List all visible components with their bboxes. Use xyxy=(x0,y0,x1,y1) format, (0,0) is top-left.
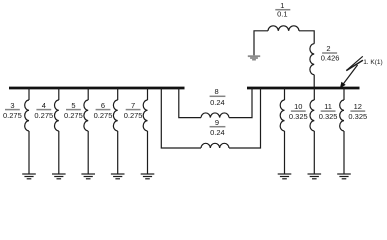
wire left bus down to reactor 8 xyxy=(179,88,201,118)
wire reactor 3 to ground xyxy=(28,131,30,174)
wire bus to reactor 6 xyxy=(117,88,119,100)
svg-text:3: 3 xyxy=(10,101,14,110)
ground of branch 4 xyxy=(52,174,66,179)
wire bus to reactor 5 xyxy=(87,88,89,100)
reactor L7 coil xyxy=(143,100,147,131)
svg-text:7: 7 xyxy=(131,101,135,110)
reactor L12 coil xyxy=(340,100,344,131)
wire reactor 11 to ground xyxy=(313,131,315,174)
reactor L11 coil xyxy=(310,100,314,131)
label 1 / 0.1 xyxy=(275,1,290,19)
reactor L1 coil xyxy=(268,26,299,31)
ground of branch 7 xyxy=(141,174,155,179)
wire right lead of reactor 1 down to reactor 2 xyxy=(299,31,314,44)
ground of branch 12 xyxy=(337,174,351,179)
wire left lead of reactor 1 xyxy=(254,31,268,56)
svg-text:11: 11 xyxy=(324,102,332,111)
wire reactor 8 up to right bus xyxy=(229,88,252,118)
wire bus to reactor 12 xyxy=(343,88,345,100)
reactor L4 coil xyxy=(54,100,58,131)
wire left bus down to reactor 9 xyxy=(161,88,201,148)
ground of branch 5 xyxy=(81,174,95,179)
svg-text:0.426: 0.426 xyxy=(321,54,340,63)
wire reactor 2 to right bus xyxy=(313,75,315,88)
svg-text:10: 10 xyxy=(294,102,302,111)
fault lightning bolt K(1) xyxy=(344,56,363,83)
ground of branch 11 xyxy=(308,174,322,179)
wire reactor 10 to ground xyxy=(284,131,286,174)
label 4 / 0.275 xyxy=(34,101,53,120)
wire reactor 12 to ground xyxy=(343,131,345,174)
svg-text:0.24: 0.24 xyxy=(210,98,225,107)
reactor L5 coil xyxy=(84,100,88,131)
svg-text:0.325: 0.325 xyxy=(289,112,308,121)
wire reactor 7 to ground xyxy=(147,131,149,174)
reactor L9 coil xyxy=(201,143,229,148)
svg-text:0.275: 0.275 xyxy=(64,111,83,120)
wire reactor 6 to ground xyxy=(117,131,119,174)
left bus xyxy=(9,87,185,90)
ground of branch 10 xyxy=(278,174,292,179)
wire bus to reactor 11 xyxy=(313,88,315,100)
wire bus to reactor 4 xyxy=(58,88,60,100)
label 6 / 0.275 xyxy=(94,101,113,120)
svg-text:0.275: 0.275 xyxy=(34,111,53,120)
label 7 / 0.275 xyxy=(124,101,143,120)
svg-text:0.275: 0.275 xyxy=(3,111,22,120)
ground of branch 3 xyxy=(22,174,36,179)
wire bus to reactor 10 xyxy=(284,88,286,100)
label 2 / 0.426 xyxy=(321,44,340,63)
svg-text:0.325: 0.325 xyxy=(348,112,367,121)
svg-text:0.24: 0.24 xyxy=(210,128,225,137)
wire bus to reactor 3 xyxy=(28,88,30,100)
reactor L3 coil xyxy=(25,100,29,131)
wire reactor 5 to ground xyxy=(87,131,89,174)
label 11 / 0.325 xyxy=(319,102,338,121)
label 5 / 0.275 xyxy=(64,101,83,120)
svg-text:0.275: 0.275 xyxy=(124,111,143,120)
svg-text:0.1: 0.1 xyxy=(277,9,287,18)
wire bus to reactor 7 xyxy=(147,88,149,100)
ground G1 (solid gray) xyxy=(248,55,260,60)
svg-text:6: 6 xyxy=(101,101,105,110)
reactor L8 coil xyxy=(201,113,229,118)
svg-text:9: 9 xyxy=(215,118,219,127)
wire reactor 4 to ground xyxy=(58,131,60,174)
svg-text:12: 12 xyxy=(354,102,362,111)
svg-text:0.275: 0.275 xyxy=(94,111,113,120)
label 12 / 0.325 xyxy=(348,102,367,121)
svg-text:8: 8 xyxy=(215,87,219,96)
label 8 / 0.24 xyxy=(210,87,226,107)
svg-text:0.325: 0.325 xyxy=(319,112,338,121)
label 10 / 0.325 xyxy=(289,102,308,121)
svg-text:2: 2 xyxy=(326,44,330,53)
ground of branch 6 xyxy=(111,174,125,179)
wire reactor 9 up to right bus xyxy=(229,88,261,148)
label 3 / 0.275 xyxy=(3,101,22,120)
label 9 / 0.24 xyxy=(210,118,226,137)
reactor L10 coil xyxy=(280,100,284,131)
reactor L2 coil (vertical) xyxy=(310,44,314,75)
right bus xyxy=(247,87,360,90)
svg-text:1. K(1): 1. K(1) xyxy=(363,59,383,66)
svg-text:5: 5 xyxy=(71,101,75,110)
fault arrowhead xyxy=(340,82,346,89)
reactor L6 coil xyxy=(113,100,117,131)
svg-text:4: 4 xyxy=(42,101,46,110)
